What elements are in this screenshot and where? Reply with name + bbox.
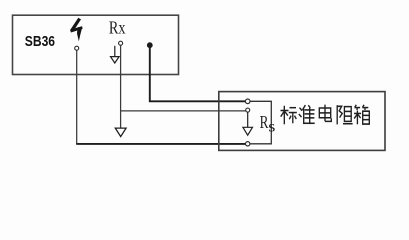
wire from T3 to Rs top terminal — [150, 48, 246, 102]
char xiang — [354, 105, 369, 124]
svg-text:R: R — [260, 112, 269, 132]
terminal T2 (Rx terminal) — [119, 41, 123, 45]
box standard resistance box — [219, 92, 385, 151]
arrow (plug-in mark at Rx terminal) — [111, 46, 120, 63]
lightning symbol — [70, 18, 83, 42]
terminal Rs inner — [246, 108, 250, 112]
arrow (open end of Rx lead) — [115, 128, 126, 137]
wire from T2 down — [120, 45, 122, 128]
svg-text:s: s — [268, 118, 275, 135]
terminal Rs bottom — [246, 142, 250, 146]
svg-text:SB36: SB36 — [25, 33, 55, 50]
char dian — [319, 105, 331, 122]
wire bottom run to Rs lower terminal — [76, 143, 245, 145]
char biao — [281, 106, 297, 125]
wire bracket around Rs — [250, 101, 271, 144]
char zhun — [299, 105, 315, 124]
box SB36 (megohmmeter) — [13, 15, 179, 74]
terminal Rs top — [245, 99, 250, 104]
char zu — [337, 105, 352, 124]
svg-text:Rx: Rx — [109, 18, 126, 38]
terminal T3 (guard/earth terminal, plugged) — [147, 43, 152, 48]
wire branch to Rs upper-inner terminal — [121, 110, 246, 112]
label standard resistance box (hand-drawn CJK) — [281, 105, 370, 125]
terminal T1 (line terminal) — [75, 46, 79, 50]
wire from T1 down — [76, 50, 78, 144]
arrow (Rs tap) — [243, 112, 253, 135]
